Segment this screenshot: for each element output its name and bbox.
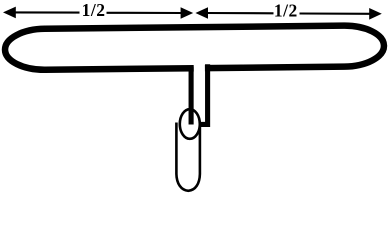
twin-lead loop head: [180, 109, 200, 139]
folded dipole loop (stadium) with feed gap in bottom wire: [5, 25, 384, 70]
twin-lead body: [176, 123, 200, 191]
svg-text:1/2: 1/2: [274, 0, 298, 20]
left feed conductor: [189, 67, 194, 125]
svg-text:1/2: 1/2: [82, 0, 106, 20]
right feed conductor with foot: [200, 64, 207, 124]
dimension arrow left half: [3, 7, 193, 19]
dimension arrow right half: [195, 7, 381, 19]
